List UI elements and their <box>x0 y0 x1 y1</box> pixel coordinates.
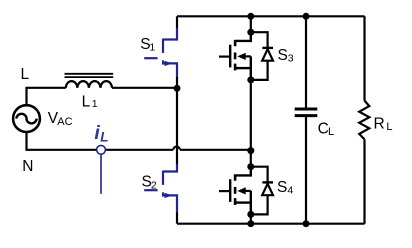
wire top rail to S1 drain <box>176 16 178 28</box>
wire S1 source to node A <box>176 77 178 88</box>
node S4 drain diode split dot <box>247 163 254 170</box>
capacitor CL <box>295 109 318 116</box>
wire hop to S4 midpoint <box>180 149 251 151</box>
wire node A down to S2 drain <box>176 88 178 164</box>
svg-text:L: L <box>386 121 392 133</box>
wire top rail to RL <box>363 16 365 100</box>
wire inductor to node A <box>112 87 177 89</box>
svg-text:S: S <box>278 47 288 64</box>
node bottom rail CL junction dot <box>303 220 310 227</box>
wire S2 source to bottom rail <box>176 213 178 224</box>
wire top rail to S3 <box>250 16 252 32</box>
wire top rail to CL <box>305 16 307 107</box>
wire L terminal to inductor <box>27 88 66 106</box>
svg-text:R: R <box>374 115 385 132</box>
svg-text:L: L <box>21 66 30 83</box>
svg-text:L: L <box>100 129 108 144</box>
body diode of S4 <box>251 167 273 215</box>
svg-text:L: L <box>82 94 91 111</box>
svg-text:1: 1 <box>149 42 155 54</box>
wire N terminal <box>27 132 97 150</box>
inductor L1 <box>65 74 114 88</box>
svg-text:3: 3 <box>288 52 294 64</box>
svg-text:1: 1 <box>92 98 98 110</box>
node top rail S3 junction dot <box>247 13 254 20</box>
wire bottom rail <box>177 223 365 225</box>
switch S1 <box>144 28 177 78</box>
switch S2 <box>144 164 177 213</box>
wire RL to bottom rail <box>363 139 365 223</box>
wire N junction to S4 drain <box>250 151 252 167</box>
node N junction dot <box>247 147 254 154</box>
current probe iL <box>97 145 106 193</box>
resistor RL <box>359 101 369 140</box>
node S3 source diode rejoin dot <box>247 76 254 83</box>
mosfet S3 <box>219 32 251 80</box>
body diode of S3 <box>251 32 273 80</box>
node top rail CL junction dot <box>303 13 310 20</box>
svg-text:S: S <box>277 179 287 196</box>
node bottom rail S4 junction dot <box>247 220 254 227</box>
wire top rail <box>177 15 365 17</box>
ac source VAC <box>13 105 40 132</box>
wire N to crossover hop <box>106 149 174 151</box>
node A junction dot <box>174 85 181 92</box>
svg-text:2: 2 <box>151 180 157 192</box>
svg-text:4: 4 <box>287 184 293 196</box>
svg-text:AC: AC <box>57 116 72 128</box>
mosfet S4 <box>219 167 251 215</box>
node S4 source diode rejoin dot <box>247 211 254 218</box>
svg-text:N: N <box>22 158 33 175</box>
wire S3 source to N junction <box>250 80 252 151</box>
wire CL to bottom rail <box>305 117 307 224</box>
svg-text:L: L <box>328 126 334 138</box>
wire crossover hop <box>173 147 180 150</box>
wire S4 source to bottom rail <box>250 214 252 223</box>
node S3 drain diode split dot <box>247 29 254 36</box>
